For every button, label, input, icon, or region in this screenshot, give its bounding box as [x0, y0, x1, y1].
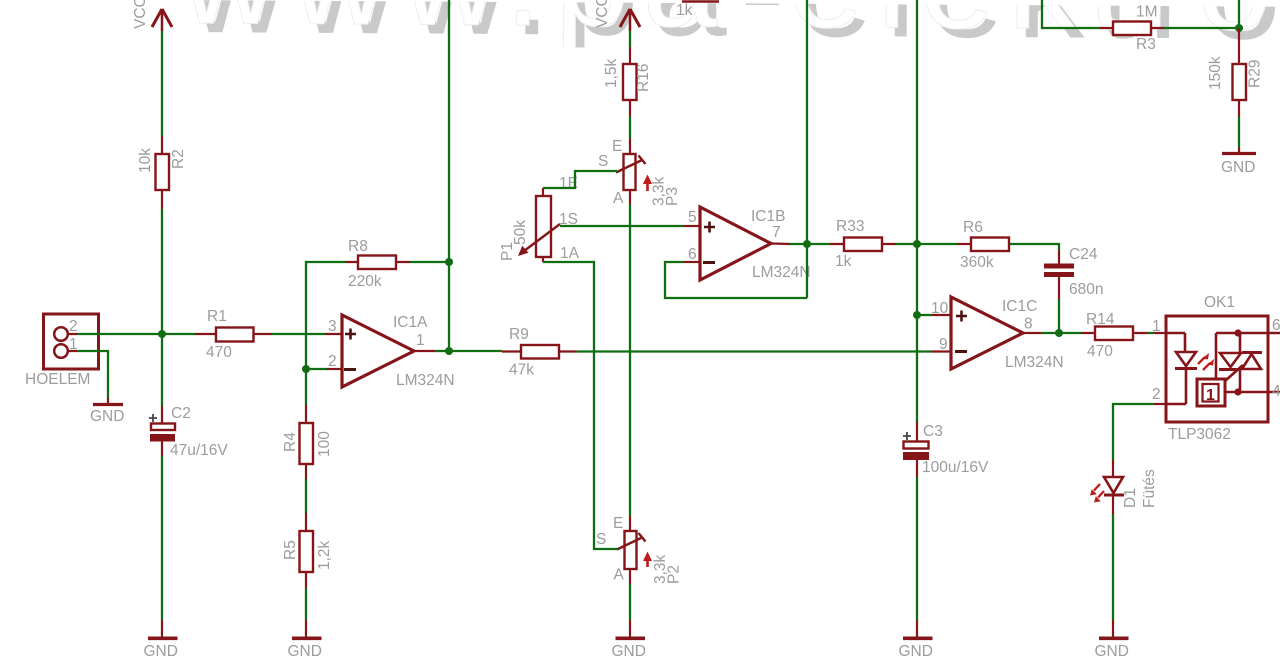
svg-text:IC1B: IC1B — [751, 208, 785, 225]
svg-text:GND: GND — [1221, 159, 1255, 176]
svg-text:GND: GND — [899, 643, 933, 660]
resistor R1 470 — [195, 308, 272, 361]
wire VCC to R16 — [629, 31, 631, 47]
op-amp IC1A — [328, 314, 455, 389]
wire rail x1042 top — [1042, 0, 1100, 28]
svg-text:IC1A: IC1A — [393, 314, 428, 331]
svg-text:2: 2 — [69, 318, 78, 335]
node output junction — [445, 347, 453, 355]
OK1 internal triac — [1216, 329, 1268, 395]
svg-text:50k: 50k — [512, 220, 529, 245]
svg-text:1: 1 — [416, 332, 425, 349]
svg-text:1: 1 — [69, 336, 78, 353]
node IC1B output junction — [803, 240, 811, 248]
resistor R8 220k — [345, 238, 410, 290]
supply VCC arrow (left) — [132, 0, 172, 31]
wire IC1A out to R9 — [449, 350, 502, 352]
svg-text:1,2k: 1,2k — [316, 540, 333, 570]
svg-text:1A: 1A — [560, 245, 580, 262]
svg-text:10k: 10k — [137, 148, 154, 173]
svg-text:6: 6 — [1272, 317, 1280, 334]
resistor R5 1,2k — [282, 513, 333, 588]
wire rail x807 from top — [806, 0, 808, 298]
svg-text:220k: 220k — [348, 273, 382, 290]
svg-text:A: A — [614, 567, 625, 584]
svg-text:E: E — [612, 138, 622, 155]
svg-text:680n: 680n — [1069, 281, 1103, 298]
wire rail to IC1C pin10 — [917, 314, 951, 316]
svg-text:S: S — [598, 153, 608, 170]
resistor R33 1k — [830, 218, 896, 270]
svg-text:TLP3062: TLP3062 — [1168, 426, 1231, 443]
OK1 internal LED — [1166, 333, 1197, 404]
optocoupler OK1 TLP3062 — [1166, 294, 1268, 443]
svg-text:R3: R3 — [1136, 36, 1156, 53]
wire C2 to ground — [161, 456, 163, 620]
svg-text:100: 100 — [316, 431, 333, 457]
node pin2 junction — [302, 365, 310, 373]
svg-text:1M: 1M — [1136, 4, 1158, 21]
svg-text:1: 1 — [1206, 387, 1215, 404]
svg-text:C3: C3 — [923, 423, 943, 440]
wire P1 wiper to IC1B pin5 — [560, 225, 700, 227]
wire R5 to ground — [305, 588, 307, 620]
svg-text:R2: R2 — [170, 149, 187, 169]
ground (R5) — [288, 620, 322, 660]
svg-text:150k: 150k — [1207, 56, 1224, 90]
wire feedback left leg — [306, 262, 345, 369]
wire R1 to IC1A pin3 — [272, 333, 342, 335]
trimmer P3 3,3k — [598, 138, 681, 207]
wire C24 to output node — [1058, 299, 1060, 333]
svg-text:4: 4 — [1272, 383, 1280, 400]
svg-text:LM324N: LM324N — [396, 372, 455, 389]
node R33-R6 junction — [913, 240, 921, 248]
svg-text:VCC: VCC — [132, 0, 149, 29]
svg-text:P3: P3 — [664, 187, 681, 206]
svg-text:R8: R8 — [348, 238, 368, 255]
wire IC1A pin2 — [306, 368, 342, 370]
wire R6 to C24 — [1023, 244, 1059, 250]
capacitor C3 100u/16V — [903, 422, 989, 477]
svg-text:LM324N: LM324N — [1005, 354, 1064, 371]
svg-text:470: 470 — [1087, 343, 1113, 360]
svg-text:47k: 47k — [509, 362, 534, 379]
wire R29 to ground — [1238, 117, 1240, 147]
resistor R16 1,5k — [603, 47, 652, 117]
svg-text:R6: R6 — [963, 219, 983, 236]
capacitor C24 680n — [1044, 246, 1103, 299]
op-amp IC1C — [931, 297, 1064, 371]
ground (HOELEM) — [90, 398, 124, 425]
svg-text:R16: R16 — [635, 64, 652, 92]
svg-text:C24: C24 — [1069, 246, 1098, 263]
ground (P2) — [612, 620, 646, 660]
svg-text:S: S — [596, 531, 606, 548]
svg-text:100u/16V: 100u/16V — [922, 459, 989, 476]
resistor R9 47k — [502, 326, 577, 379]
OK1 pin labels — [1152, 317, 1280, 403]
wire C3 to ground — [916, 477, 918, 620]
svg-text:10: 10 — [931, 300, 949, 317]
svg-text:GND: GND — [90, 408, 124, 425]
wire R16 to P3 — [629, 117, 631, 154]
svg-text:R33: R33 — [836, 218, 864, 235]
svg-text:8: 8 — [1024, 316, 1033, 333]
svg-text:47u/16V: 47u/16V — [170, 442, 228, 459]
node A junction — [158, 330, 166, 338]
wire R4 branch — [305, 369, 307, 405]
wire P1 top to P3 wiper — [543, 171, 617, 196]
wire P3 A down to P2 E — [629, 190, 631, 531]
wire OK1 pin2 to D1 — [1113, 404, 1166, 460]
wire IC1B output — [771, 242, 830, 245]
wire HOELEM pin2 to node — [77, 333, 195, 335]
svg-text:R14: R14 — [1086, 311, 1115, 328]
svg-text:GND: GND — [1095, 643, 1129, 660]
ground (C3) — [899, 620, 933, 660]
svg-text:P2: P2 — [666, 565, 683, 584]
svg-text:2: 2 — [328, 353, 337, 370]
OK1 LED arrows — [1198, 353, 1214, 370]
wire R14 to OK1 pin1 — [1147, 332, 1166, 334]
resistor R14 470 — [1059, 311, 1147, 360]
svg-text:1,5k: 1,5k — [603, 58, 620, 88]
svg-text:IC1C: IC1C — [1002, 298, 1037, 315]
resistor R6 360k — [917, 219, 1023, 271]
svg-text:R5: R5 — [282, 540, 299, 560]
node R3-R29 junction — [1235, 24, 1243, 32]
wire R3 to R29 node — [1164, 0, 1239, 28]
wire VCC to R2 — [161, 31, 163, 136]
svg-text:470: 470 — [206, 344, 232, 361]
svg-text:E: E — [613, 515, 623, 532]
wire R8 to rail — [410, 261, 449, 263]
svg-text:7: 7 — [772, 224, 781, 241]
resistor R2 10k — [137, 136, 187, 209]
potentiometer P1 50k — [499, 175, 580, 262]
ground (R29) — [1221, 147, 1256, 176]
svg-text:R4: R4 — [282, 432, 299, 452]
svg-text:D1: D1 — [1122, 488, 1139, 508]
LED D1 Futes — [1090, 460, 1158, 514]
wire P2 A to ground — [629, 569, 631, 620]
wire R9 to IC1C pin9 — [577, 350, 952, 352]
wire R2 to node — [161, 209, 163, 334]
resistor R3 1M — [1100, 4, 1164, 54]
svg-text:1: 1 — [1152, 318, 1161, 335]
capacitor C2 47u/16V — [149, 334, 228, 459]
svg-text:5: 5 — [688, 209, 697, 226]
wire IC1A output — [414, 350, 449, 352]
svg-text:6: 6 — [688, 246, 697, 263]
wire rail top to output — [448, 0, 450, 351]
OK1 pin stubs right — [1268, 333, 1280, 392]
svg-text:R29: R29 — [1247, 60, 1264, 88]
OK1 zero-cross box — [1197, 379, 1225, 406]
svg-text:R1: R1 — [207, 308, 227, 325]
node R8 junction — [445, 258, 453, 266]
ground (C2) — [144, 620, 178, 660]
wire HOELEM pin1 to ground — [77, 351, 108, 398]
svg-text:1k: 1k — [676, 2, 693, 19]
wire R33 to rail — [896, 243, 917, 245]
supply VCC arrow (middle) — [594, 0, 640, 31]
ground (D1) — [1095, 620, 1129, 660]
svg-text:360k: 360k — [960, 254, 994, 271]
label 1k (cut resistor) — [676, 2, 719, 20]
svg-text:3: 3 — [328, 318, 337, 335]
svg-text:C2: C2 — [171, 405, 191, 422]
wire IC1B pin6 feedback loop — [665, 262, 807, 298]
svg-text:GND: GND — [288, 643, 322, 660]
svg-text:Fütés: Fütés — [1141, 469, 1158, 508]
svg-text:9: 9 — [939, 336, 948, 353]
connector HOELEM — [25, 314, 99, 388]
svg-text:2: 2 — [1152, 386, 1161, 403]
trimmer P2 3,3k — [596, 515, 683, 584]
wire P1 bottom to P2 wiper — [543, 257, 617, 549]
wire R4 to R5 — [305, 479, 307, 513]
svg-text:LM324N: LM324N — [752, 264, 811, 281]
svg-text:A: A — [613, 190, 624, 207]
resistor R29 150k — [1207, 28, 1264, 117]
svg-text:GND: GND — [144, 643, 178, 660]
resistor R4 100 — [282, 405, 333, 479]
wire rail x917 — [916, 0, 918, 422]
op-amp IC1B — [688, 207, 811, 281]
svg-text:HOELEM: HOELEM — [25, 371, 90, 388]
svg-text:1k: 1k — [835, 253, 852, 270]
svg-text:VCC: VCC — [594, 0, 611, 28]
wire D1 to ground — [1112, 514, 1114, 620]
node IC1C output junction — [1055, 329, 1063, 337]
svg-text:GND: GND — [612, 643, 646, 660]
svg-text:R9: R9 — [509, 326, 529, 343]
svg-text:OK1: OK1 — [1204, 294, 1235, 311]
wire IC1C output — [1023, 332, 1059, 334]
node pin10 junction — [913, 311, 921, 319]
